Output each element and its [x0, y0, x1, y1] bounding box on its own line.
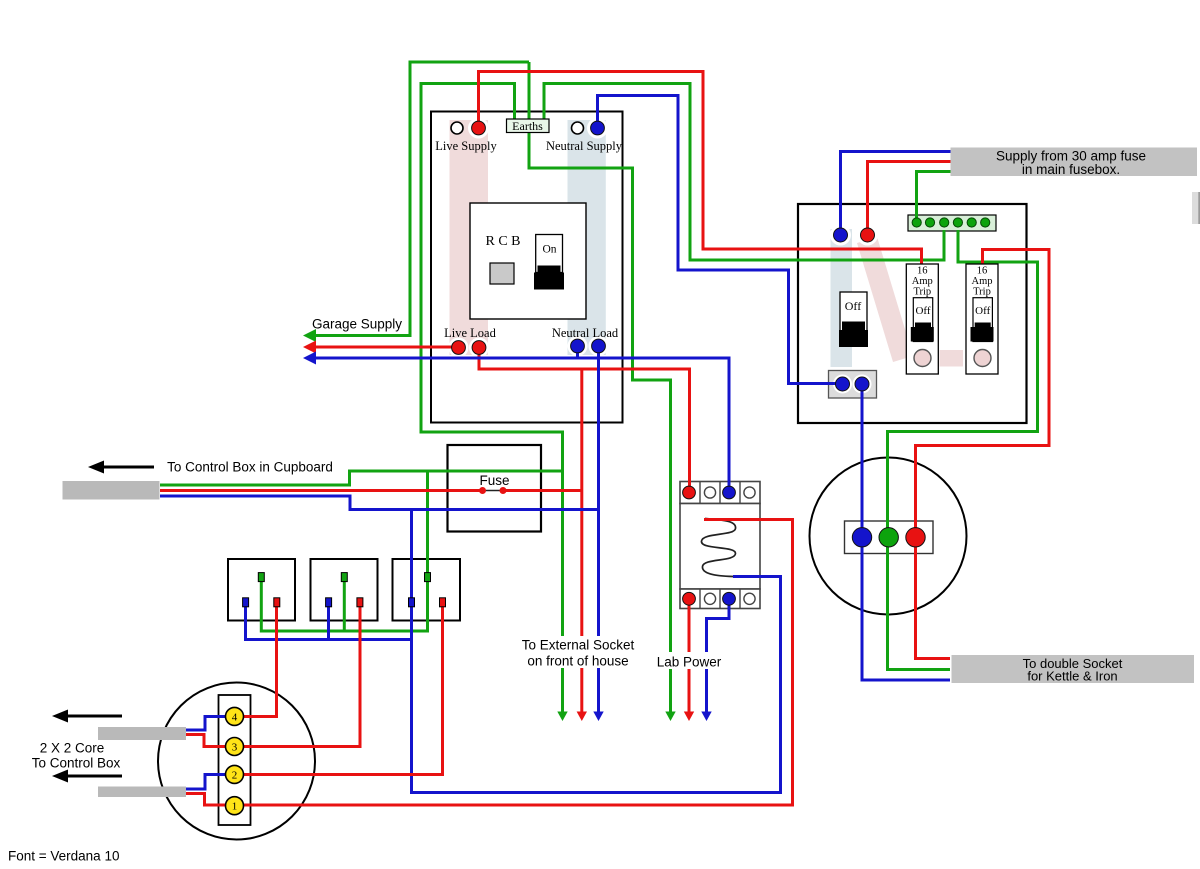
- gray cable bar control box: [63, 481, 160, 500]
- RCB live supply white circle: [451, 122, 463, 134]
- arrowhead green external socket: [557, 712, 567, 722]
- lab power connector top strip: [680, 482, 760, 504]
- svg-text:Trip: Trip: [973, 287, 991, 298]
- right edge gray stub: [1192, 192, 1200, 224]
- live supply pink band: [450, 120, 489, 355]
- fusebox outer box: [798, 204, 1027, 423]
- kettle junction red dot: [906, 528, 925, 547]
- arrowhead green garage supply: [303, 329, 316, 342]
- wire blue control-box run: [160, 496, 599, 510]
- kettle junction terminal strip: [845, 521, 934, 554]
- svg-text:4: 4: [232, 711, 238, 723]
- connector terminal block: [219, 695, 251, 825]
- svg-text:Live Load: Live Load: [444, 326, 496, 340]
- white halos under terminal dots: [449, 118, 879, 394]
- fuse dot left: [479, 487, 486, 494]
- label lab power: [653, 652, 725, 670]
- black arrow 2x2 core bottom: [52, 770, 122, 783]
- wire blue lab-power bottom dot to arrow: [707, 599, 730, 713]
- svg-text:1: 1: [232, 801, 238, 813]
- fusebox earth terminal strip: [908, 215, 996, 231]
- gray cable bar 2: [98, 787, 186, 798]
- svg-text:16: 16: [917, 266, 928, 277]
- svg-text:R C B: R C B: [485, 234, 520, 249]
- wire red control-box to fuse: [160, 489, 482, 492]
- wire blue supply-label to fusebox neutral dot: [841, 152, 952, 230]
- arrowhead red lab power: [684, 712, 694, 722]
- wire red terminal 4 to socket1: [244, 607, 277, 717]
- svg-text:2 X 2 Core: 2 X 2 Core: [40, 741, 105, 756]
- trip 2: [966, 264, 998, 374]
- wire red trip2 to kettle circle and label: [916, 250, 1050, 659]
- RCB unit outer box: [431, 112, 623, 423]
- connector terminal 4: [226, 707, 244, 725]
- bottom left circle (connector): [158, 683, 315, 840]
- RCB neutral supply white circle: [572, 122, 584, 134]
- socket 2 pins: [326, 598, 332, 607]
- svg-text:Earths: Earths: [512, 119, 543, 133]
- wire red bar1 to terminal 3: [186, 735, 226, 747]
- connector terminal 3: [226, 738, 244, 756]
- svg-text:Trip: Trip: [913, 287, 931, 298]
- RCB inner box: [470, 203, 586, 319]
- connector terminal 1: [226, 797, 244, 815]
- socket box 3: [393, 559, 461, 621]
- wire green supply-label to strip dot1: [917, 172, 952, 223]
- wire red lab-power bottom dot to arrow: [688, 605, 691, 713]
- svg-text:To External Socket: To External Socket: [522, 638, 635, 653]
- wire blue garage-supply arrow to lab-power top dot: [309, 358, 729, 487]
- strip green dots: [912, 218, 990, 227]
- svg-text:16: 16: [977, 266, 988, 277]
- heater element zigzag: [701, 519, 735, 577]
- socket 1 pins: [243, 598, 249, 607]
- fusebox neutral blue band: [831, 229, 853, 367]
- arrowhead red garage supply: [303, 341, 316, 354]
- arrowhead blue lab power: [701, 712, 711, 722]
- fusebox neutral block: [829, 371, 877, 399]
- fusebox live pink diagonal band: [857, 237, 913, 362]
- svg-text:in main fusebox.: in main fusebox.: [1022, 162, 1120, 177]
- wire green earth A: earths box through to lab-power arrow: [529, 62, 671, 713]
- svg-text:To Control Box in Cupboard: To Control Box in Cupboard: [167, 460, 333, 475]
- fuse element link: [483, 490, 504, 492]
- wire red garage-supply arrow to live load dot1: [309, 346, 459, 349]
- svg-text:Off: Off: [845, 299, 861, 313]
- wire blue neutral supply from fusebox block to RCB: [598, 96, 843, 384]
- neutral supply blue band: [568, 120, 606, 355]
- kettle junction blue dot: [852, 528, 871, 547]
- wire red terminal 2 to socket3: [244, 607, 443, 775]
- svg-text:for Kettle & Iron: for Kettle & Iron: [1027, 669, 1117, 684]
- RCB switch: [534, 235, 564, 290]
- svg-text:on front of house: on front of house: [527, 654, 628, 669]
- wire green socket2 earth drop: [343, 581, 346, 631]
- junction circle for kettle socket: [810, 458, 967, 615]
- wire green strip dot4 to kettle circle and label: [888, 230, 1038, 670]
- wire blue socket2 drop: [327, 607, 330, 640]
- arrowhead green lab power: [665, 712, 675, 722]
- earths label box: [507, 119, 550, 133]
- black arrow to control box in cupboard: [88, 461, 154, 474]
- RCB neutral load dots: [571, 339, 585, 353]
- RCB neutral supply blue dot: [591, 121, 605, 135]
- lab connector bottom dots: [683, 592, 696, 605]
- fusebox main switch: [839, 292, 868, 347]
- lab connector top dots: [683, 486, 696, 499]
- svg-text:Amp: Amp: [912, 276, 933, 287]
- wire red live load dot2 to lab-power top dot: [479, 347, 690, 487]
- wire red live supply from RCB to trip1: [479, 72, 922, 265]
- wire blue fusebox block to kettle circle and label: [862, 384, 950, 681]
- svg-text:Neutral Supply: Neutral Supply: [546, 139, 623, 153]
- socket box 2: [311, 559, 378, 621]
- svg-text:Fuse: Fuse: [479, 473, 509, 488]
- svg-text:Amp: Amp: [972, 276, 993, 287]
- label to external socket: [518, 636, 638, 669]
- svg-text:Live Supply: Live Supply: [435, 139, 497, 153]
- wire blue bar2 to terminal 2: [186, 775, 226, 790]
- wire green control-box run: [160, 471, 563, 485]
- wire blue neutral load dot1 stub: [576, 351, 579, 358]
- wire green garage-supply arrow run: [309, 62, 529, 336]
- arrowhead red external socket: [577, 712, 587, 722]
- svg-text:Garage Supply: Garage Supply: [312, 317, 402, 332]
- wire blue socket3 drop to heater bottom: [412, 510, 781, 793]
- socket box 1: [228, 559, 295, 621]
- gray cable bar 1: [98, 727, 186, 740]
- svg-text:Font = Verdana 10: Font = Verdana 10: [8, 849, 119, 864]
- svg-text:Off: Off: [975, 305, 990, 317]
- kettle junction green dot: [879, 528, 898, 547]
- wire red terminal 3 to socket2: [244, 607, 360, 747]
- wire green earth B: earths box left loop down to external-socket arrow: [421, 84, 563, 714]
- wire red heater to connector terminal 1: [186, 520, 793, 806]
- svg-text:Neutral Load: Neutral Load: [552, 326, 619, 340]
- wire red external-socket drop: [580, 369, 583, 713]
- trip 1: [906, 264, 938, 374]
- fusebox neutral dot: [834, 228, 848, 242]
- wire blue socket bus: [246, 607, 412, 640]
- svg-text:Off: Off: [915, 305, 930, 317]
- arrowhead blue garage supply: [303, 352, 316, 365]
- supply label gray box: [951, 148, 1198, 177]
- wire blue neutral load dot2 to external-socket arrow: [597, 351, 600, 713]
- wire red supply-label to fusebox live dot: [868, 162, 952, 230]
- connector terminal 2: [226, 765, 244, 783]
- lab power connector body: [680, 504, 760, 590]
- svg-text:To Control Box: To Control Box: [32, 756, 121, 771]
- fuse dot right: [500, 487, 507, 494]
- wire red fuse to external-socket drop: [504, 489, 582, 492]
- black arrow 2x2 core top: [52, 710, 122, 723]
- svg-text:Lab Power: Lab Power: [657, 655, 722, 670]
- fusebox live dot: [861, 228, 875, 242]
- arrowhead blue external socket: [593, 712, 603, 722]
- wire green earth C: earths box to fusebox strip dot3: [544, 84, 944, 261]
- RCB live supply red dot: [472, 121, 486, 135]
- svg-text:On: On: [542, 244, 556, 256]
- svg-text:2: 2: [232, 769, 238, 781]
- fuse box: [448, 445, 542, 532]
- RCB live load dots: [452, 341, 466, 355]
- wire green socket earth drop and bus: [261, 471, 427, 631]
- socket 3 pins: [409, 598, 415, 607]
- fusebox neutral block dots: [836, 377, 850, 391]
- RCB test button gray square: [490, 263, 514, 284]
- fusebox pink link band: [940, 350, 964, 367]
- lab power connector bottom strip: [680, 589, 760, 609]
- kettle label gray box: [952, 655, 1195, 683]
- wire blue bar1 to terminal 4: [186, 717, 226, 731]
- svg-text:3: 3: [232, 742, 238, 754]
